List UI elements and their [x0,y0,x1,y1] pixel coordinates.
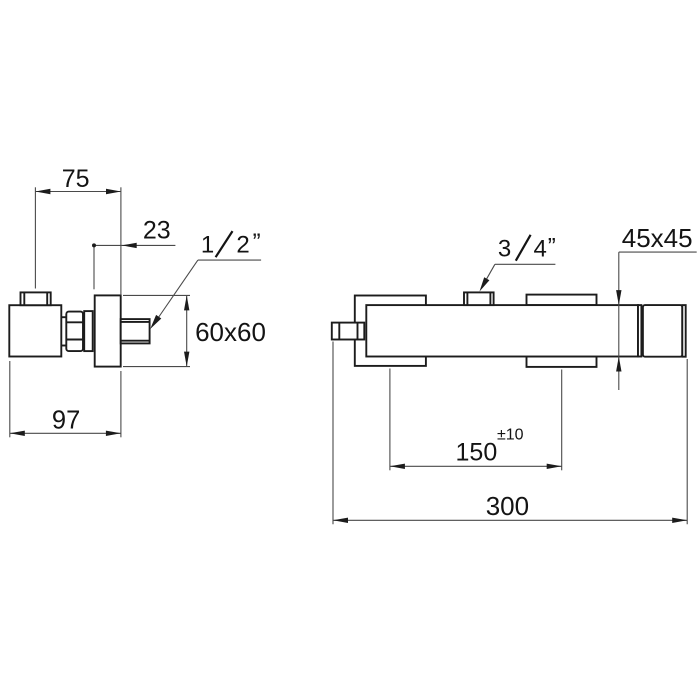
dimension 97: extension line right [120,371,122,437]
arrowhead 75 left [35,189,50,194]
arrowhead 97 right [106,431,121,436]
dimension 97: extension line left [9,361,11,437]
svg-text:23: 23 [143,216,171,244]
front view: right wall plate top tab [527,295,597,306]
dimension 45x45: leader tail [619,251,697,253]
front view: left side diverter knob [332,323,365,340]
front view: 3/4 inch top outlet port [464,292,494,305]
dimension 3/4": leader tail [495,263,556,265]
svg-text:2: 2 [236,231,249,258]
dimension 45x45: vertical dimension line [618,252,620,390]
front view: left square wall plate [355,296,426,366]
svg-text:±10: ±10 [497,427,524,444]
arrowhead 1/2" leader [150,315,161,329]
svg-text:60x60: 60x60 [195,317,266,347]
front view: ring between body and handle [638,305,641,356]
svg-text:”: ” [253,229,261,256]
svg-text:75: 75 [62,165,90,193]
front view: right wall plate bottom tab [527,357,597,367]
side view: top inlet port flange [21,292,51,305]
dimension 300: dimension line [333,519,687,521]
arrowhead 300 right [672,518,687,523]
arrowhead 150 right [547,464,562,469]
dimension 23: extension line from plate front [93,245,95,289]
side view: square wall plate 60x60 [95,295,121,366]
dimension 1/2": leader diagonal [154,260,198,324]
svg-text:150: 150 [456,439,498,467]
svg-text:97: 97 [52,406,80,434]
dimension 300: extension line right (handle end) [686,359,688,524]
dimension 75: extension line right (wall face) [120,187,122,295]
front view: handle end cap [682,305,685,357]
side view: sleeve between nut and wall plate [84,311,93,351]
side view: hex union nut [66,312,83,352]
dimension 23: dot terminator [92,243,96,247]
dimension 150: dimension line [390,465,562,467]
arrowhead 60x60 bottom [184,352,189,367]
side view: connector stub between body and nut [61,317,66,345]
dimension 23: leader line with tail [94,244,175,246]
dimension 75: dimension line [35,191,121,193]
side view: mixer body square [9,305,61,356]
front view: main horizontal bar body [366,305,638,356]
label 3/4" slash stroke [516,235,531,261]
arrowhead 45x45 top (pointing down) [616,290,621,305]
arrowhead 97 left [10,431,25,436]
svg-text:300: 300 [486,491,529,521]
dimension 150: extension line left (plate centre) [389,369,391,471]
svg-text:4: 4 [534,236,547,263]
arrowhead 75 right [106,189,121,194]
dimension 75: extension line left (port centre) [34,187,36,288]
svg-text:45x45: 45x45 [622,223,693,253]
svg-text:”: ” [548,233,556,260]
side view: 1/2 inch wall connection pipe [121,319,150,343]
arrowhead 45x45 bottom (pointing up) [616,357,621,372]
arrowhead 300 left [333,518,348,523]
front view: handle block [643,305,682,357]
arrowhead 60x60 top [184,295,189,310]
dimension 60x60: vertical dimension line [186,295,188,366]
svg-text:3: 3 [498,236,511,263]
dimension 97: dimension line [10,432,121,434]
svg-text:1: 1 [201,231,214,258]
dimension 3/4": leader diagonal [481,264,495,289]
arrowhead 3/4" leader [480,277,490,291]
arrowhead 23 (outside, pointing left) [122,243,137,248]
dimension 150: extension line right (plate centre) [561,370,563,471]
dimension 60x60: bottom extension line [123,366,190,368]
arrowhead 150 left [390,464,405,469]
dimension 1/2": leader tail [198,259,261,261]
label 1/2" slash stroke [216,231,233,257]
dimension 300: extension line left (knob tip) [332,342,334,525]
dimension 60x60: top extension line [123,294,190,296]
